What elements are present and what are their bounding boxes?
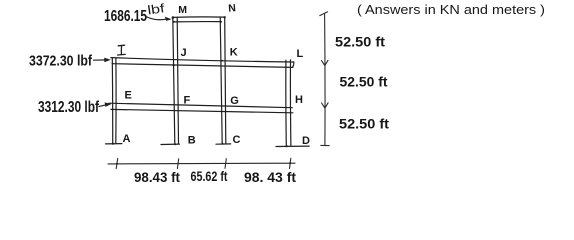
support base C bbox=[216, 143, 231, 145]
svg-text:N: N bbox=[228, 2, 236, 15]
beam E-F-G-H (middle beam, double line) bbox=[109, 103, 293, 113]
svg-text:F: F bbox=[184, 95, 191, 107]
svg-text:52.50 ft: 52.50 ft bbox=[340, 74, 388, 90]
column C-G-K-N (third column, double line, full height) bbox=[220, 17, 226, 144]
tick at C bbox=[225, 159, 226, 169]
svg-text:98. 43 ft: 98. 43 ft bbox=[244, 169, 296, 185]
svg-text:D: D bbox=[302, 135, 310, 147]
svg-text:52.50 ft: 52.50 ft bbox=[335, 34, 385, 50]
svg-text:E: E bbox=[125, 90, 132, 102]
beam M-N (tower roof beam, double line) bbox=[172, 17, 224, 22]
svg-text:52.50 ft: 52.50 ft bbox=[339, 116, 389, 132]
svg-text:M: M bbox=[178, 4, 187, 16]
bottom foot bbox=[321, 144, 329, 146]
svg-text:B: B bbox=[188, 135, 196, 147]
svg-text:( Answers in KN and meters ): ( Answers in KN and meters ) bbox=[357, 2, 545, 17]
svg-text:3312.30 lbf: 3312.30 lbf bbox=[38, 99, 100, 116]
junction ink dots bbox=[112, 16, 291, 165]
svg-text:65.62 ft: 65.62 ft bbox=[191, 168, 228, 184]
load arrow at M level bbox=[146, 17, 172, 21]
arrowhead at upper beam level bbox=[322, 60, 329, 65]
tick at A bbox=[116, 159, 118, 169]
svg-text:1686.15: 1686.15 bbox=[104, 8, 147, 25]
svg-text:C: C bbox=[233, 134, 241, 146]
beam I-J-K-L (upper beam, double line) bbox=[111, 58, 294, 68]
svg-text:A: A bbox=[123, 133, 131, 145]
svg-text:J: J bbox=[181, 47, 187, 59]
support base A bbox=[106, 143, 122, 145]
svg-text:G: G bbox=[230, 95, 239, 107]
svg-text:98.43 ft: 98.43 ft bbox=[134, 169, 180, 185]
arrowhead at middle beam level bbox=[322, 103, 329, 108]
tick at B bbox=[177, 159, 178, 169]
svg-text:H: H bbox=[295, 94, 303, 106]
node label I bbox=[118, 45, 126, 55]
tick at D bbox=[290, 158, 291, 168]
svg-text:L: L bbox=[297, 48, 304, 60]
load arrow at E bbox=[99, 102, 112, 107]
load arrow at I bbox=[93, 58, 111, 63]
load label 1686.15 lbf bbox=[104, 1, 166, 25]
support base D bbox=[276, 145, 309, 147]
svg-text:lbf: lbf bbox=[147, 1, 166, 17]
column A-E-I (left column, double line) bbox=[112, 58, 116, 144]
svg-text:K: K bbox=[230, 47, 238, 59]
support base B bbox=[161, 143, 179, 145]
column D-H-L (right column, double line) bbox=[286, 60, 291, 146]
bottom dimension line bbox=[108, 158, 295, 168]
column B-F-J-M (second column, double line, full height) bbox=[173, 17, 179, 144]
top slanted tick bbox=[320, 12, 328, 16]
right vertical dimension line bbox=[320, 12, 329, 146]
svg-text:3372.30 lbf: 3372.30 lbf bbox=[29, 53, 93, 70]
